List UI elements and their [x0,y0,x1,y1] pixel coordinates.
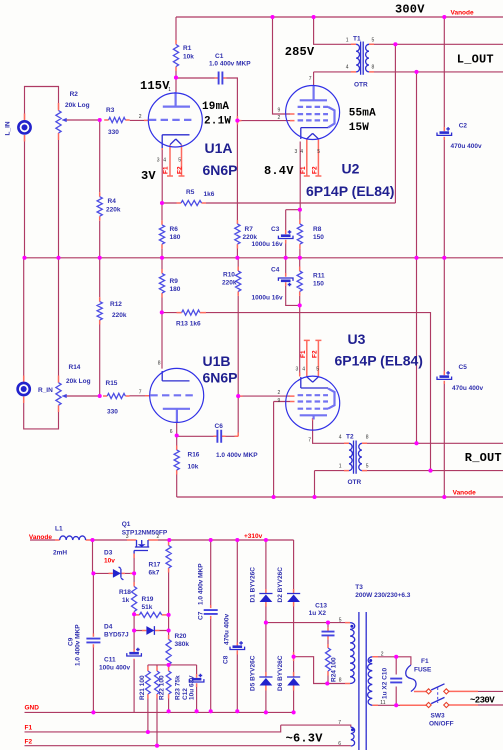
svg-text:6P14P (EL84): 6P14P (EL84) [306,183,394,199]
svg-text:470u 400v: 470u 400v [224,614,231,645]
svg-text:5: 5 [178,158,181,164]
svg-text:U1B: U1B [203,353,231,369]
svg-text:R20: R20 [175,633,187,640]
svg-text:150: 150 [313,234,324,241]
svg-text:10v: 10v [104,558,115,565]
svg-text:R12: R12 [110,301,122,308]
svg-text:R7: R7 [245,226,254,233]
svg-text:200W 230/230+6.3: 200W 230/230+6.3 [355,592,410,599]
svg-text:15W: 15W [349,122,370,134]
svg-text:F1: F1 [300,350,307,358]
svg-text:2: 2 [278,390,281,396]
svg-text:3: 3 [295,149,298,155]
svg-text:3V: 3V [141,169,156,183]
svg-text:9: 9 [278,108,281,114]
svg-text:180: 180 [170,286,181,293]
svg-text:C8: C8 [223,655,230,664]
svg-text:1.0 400v MKP: 1.0 400v MKP [75,624,82,666]
svg-text:T2: T2 [346,434,354,441]
svg-text:D3: D3 [104,550,113,557]
svg-text:55mA: 55mA [349,108,376,120]
svg-text:D6 BYV26C: D6 BYV26C [277,655,284,691]
svg-text:9: 9 [278,398,281,404]
svg-text:1u X2: 1u X2 [309,610,327,617]
svg-text:R14: R14 [69,364,81,371]
svg-text:220k: 220k [222,280,237,287]
svg-text:5: 5 [316,367,319,373]
svg-text:L_OUT: L_OUT [457,53,494,67]
svg-text:R21 100: R21 100 [139,675,146,700]
svg-text:20k Log: 20k Log [65,102,90,109]
svg-text:7: 7 [309,76,312,82]
svg-text:6P14P (EL84): 6P14P (EL84) [335,353,423,369]
svg-text:470u 400v: 470u 400v [452,385,483,392]
svg-text:470u 400v: 470u 400v [451,143,482,150]
svg-text:6: 6 [170,429,173,435]
svg-text:1.0 400v MKP: 1.0 400v MKP [216,452,258,459]
svg-text:6N6P: 6N6P [203,370,238,386]
svg-text:R19: R19 [142,596,154,603]
svg-text:C6: C6 [215,423,224,430]
svg-text:C11: C11 [104,657,116,664]
svg-text:220k: 220k [112,312,127,319]
svg-text:6N6P: 6N6P [203,162,238,178]
svg-text:U2: U2 [342,161,360,177]
svg-text:1.0 400v MKP: 1.0 400v MKP [209,61,251,68]
svg-text:1000u 16v: 1000u 16v [252,295,283,302]
svg-text:F2: F2 [25,739,33,746]
svg-text:F2: F2 [312,350,319,358]
svg-text:5: 5 [372,38,375,44]
svg-text:Vanode: Vanode [453,490,477,497]
svg-text:7: 7 [139,390,142,396]
svg-text:51k: 51k [142,604,153,611]
svg-text:7: 7 [338,720,341,726]
svg-text:L_IN: L_IN [5,121,12,135]
svg-text:4: 4 [339,435,342,441]
svg-text:R3: R3 [106,107,115,114]
svg-text:1000u 16v: 1000u 16v [252,241,283,248]
svg-text:4: 4 [163,158,166,164]
svg-text:10k: 10k [183,54,194,61]
svg-text:19mA: 19mA [202,101,229,113]
svg-text:5: 5 [339,618,342,624]
svg-text:10k: 10k [188,464,199,471]
svg-text:R_OUT: R_OUT [465,451,502,465]
svg-text:F1: F1 [300,166,307,174]
svg-text:1: 1 [339,464,342,470]
svg-text:BYD57J: BYD57J [104,632,129,639]
svg-text:R11: R11 [313,273,325,280]
svg-text:380k: 380k [175,641,190,648]
svg-text:U1A: U1A [205,140,233,156]
svg-text:Q1: Q1 [122,521,131,528]
svg-text:Vanode: Vanode [451,10,475,17]
svg-text:FUSE: FUSE [414,667,432,674]
svg-text:115V: 115V [140,79,170,93]
svg-text:GND: GND [25,705,40,712]
svg-text:5: 5 [317,149,320,155]
svg-text:C4: C4 [271,267,280,274]
svg-text:8: 8 [372,65,375,71]
svg-text:1u X2 C10: 1u X2 C10 [382,668,389,699]
svg-text:R23 75k: R23 75k [175,675,182,700]
svg-text:2: 2 [381,652,384,658]
svg-text:R4: R4 [108,198,117,205]
svg-text:F1: F1 [25,725,33,732]
svg-text:6: 6 [338,741,341,747]
svg-text:D5 BYV26C: D5 BYV26C [250,655,257,691]
svg-text:F1: F1 [163,166,170,174]
svg-text:R18: R18 [119,589,131,596]
svg-text:R24 100: R24 100 [331,657,338,682]
svg-text:C7: C7 [198,611,205,620]
svg-text:C5: C5 [459,364,468,371]
svg-text:8: 8 [366,435,369,441]
svg-text:R6: R6 [170,226,179,233]
svg-text:ON/OFF: ON/OFF [429,721,454,728]
svg-text:1k6: 1k6 [204,191,215,198]
svg-text:C3: C3 [271,226,280,233]
svg-text:R2: R2 [70,91,79,98]
svg-text:20k Log: 20k Log [66,378,91,385]
svg-text:11: 11 [380,700,385,706]
svg-text:STP12NM50FP: STP12NM50FP [122,530,168,537]
svg-text:R10: R10 [223,272,235,279]
svg-text:R22 100: R22 100 [159,675,166,700]
svg-text:4: 4 [302,367,305,373]
svg-text:8: 8 [158,361,161,367]
svg-text:10u 63V: 10u 63V [189,675,196,700]
svg-text:R5: R5 [186,189,195,196]
svg-text:8: 8 [339,678,342,684]
svg-text:2: 2 [157,534,160,540]
svg-text:T3: T3 [355,584,363,591]
svg-text:3: 3 [296,367,299,373]
svg-text:1.0 400v MKP: 1.0 400v MKP [198,563,205,605]
svg-text:150: 150 [313,281,324,288]
svg-text:C2: C2 [459,123,468,130]
svg-text:L1: L1 [55,526,63,533]
svg-text:2mH: 2mH [53,550,67,557]
svg-text:2: 2 [139,114,142,120]
svg-text:R9: R9 [170,278,179,285]
svg-text:285V: 285V [285,45,315,59]
svg-text:R16: R16 [188,452,200,459]
svg-text:2: 2 [278,115,281,121]
svg-text:R15: R15 [106,380,118,387]
svg-text:+310v: +310v [244,533,263,540]
svg-text:4: 4 [300,149,303,155]
svg-text:330: 330 [108,129,119,136]
svg-text:6k7: 6k7 [149,570,160,577]
svg-text:F1: F1 [421,658,429,665]
svg-text:R1: R1 [183,45,192,52]
svg-text:D1 BYV26C: D1 BYV26C [250,567,257,603]
svg-text:300V: 300V [395,3,425,17]
svg-text:1: 1 [168,87,171,93]
svg-text:220k: 220k [106,207,121,214]
svg-text:3: 3 [157,158,160,164]
svg-text:7: 7 [308,438,311,444]
svg-text:OTR: OTR [354,82,368,89]
svg-text:3: 3 [126,534,129,540]
svg-text:F2: F2 [312,166,319,174]
svg-text:1: 1 [346,38,349,44]
svg-text:C1: C1 [215,53,224,60]
svg-text:R13 1k6: R13 1k6 [176,321,201,328]
svg-text:T1: T1 [353,36,361,43]
svg-text:OTR: OTR [348,479,362,486]
svg-text:1k: 1k [122,597,130,604]
svg-text:4: 4 [346,65,349,71]
svg-text:8.4V: 8.4V [264,164,294,178]
svg-text:2.1W: 2.1W [204,116,231,128]
svg-text:~230V: ~230V [470,696,495,706]
svg-text:R_IN: R_IN [38,387,53,394]
svg-text:F2: F2 [176,166,183,174]
svg-text:SW3: SW3 [431,713,445,720]
svg-text:100u 400v: 100u 400v [99,665,130,672]
svg-text:D4: D4 [104,624,113,631]
svg-text:C9: C9 [68,637,75,646]
svg-text:5: 5 [366,464,369,470]
svg-text:~6.3V: ~6.3V [286,732,324,746]
svg-text:D2 BYV26C: D2 BYV26C [277,567,284,603]
svg-text:Vanode: Vanode [29,534,53,541]
svg-text:180: 180 [170,234,181,241]
svg-text:R8: R8 [313,226,322,233]
svg-text:220k: 220k [243,234,258,241]
svg-text:R17: R17 [149,562,161,569]
svg-text:330: 330 [107,409,118,416]
svg-text:U3: U3 [348,331,366,347]
svg-text:C13: C13 [315,603,327,610]
